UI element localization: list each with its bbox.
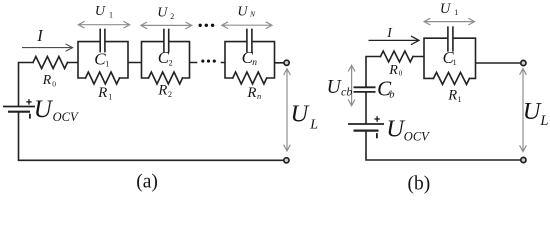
svg-text:2: 2 [170, 12, 174, 21]
svg-text:1: 1 [453, 58, 457, 67]
svg-text:OCV: OCV [404, 130, 430, 144]
svg-text:N: N [249, 10, 256, 19]
svg-text:n: n [257, 91, 261, 101]
svg-text:n: n [252, 58, 257, 68]
svg-text:U: U [95, 4, 106, 19]
svg-text:cb: cb [341, 85, 352, 99]
svg-text:U: U [440, 1, 452, 17]
svg-text:U: U [291, 101, 311, 128]
svg-text:1: 1 [105, 60, 109, 69]
svg-text:L: L [539, 113, 548, 129]
svg-text:(a): (a) [136, 172, 158, 193]
svg-text:R: R [246, 85, 256, 101]
svg-text:U: U [34, 96, 54, 123]
svg-text:R: R [42, 72, 52, 87]
svg-text:0: 0 [52, 79, 56, 88]
svg-text:U: U [157, 5, 168, 20]
svg-text:R: R [157, 82, 167, 98]
svg-text:R: R [447, 88, 457, 104]
svg-text:2: 2 [169, 59, 173, 68]
svg-text:2: 2 [168, 90, 172, 99]
svg-text:R: R [97, 85, 107, 101]
svg-text:1: 1 [109, 10, 113, 19]
svg-text:(b): (b) [408, 174, 431, 195]
svg-text:OCV: OCV [53, 110, 79, 124]
svg-text:1: 1 [458, 95, 462, 104]
svg-text:U: U [237, 4, 248, 19]
svg-text:L: L [309, 117, 318, 132]
svg-text:1: 1 [454, 8, 458, 17]
svg-text:0: 0 [399, 70, 403, 78]
svg-text:1: 1 [108, 92, 112, 101]
svg-text:b: b [389, 90, 394, 101]
